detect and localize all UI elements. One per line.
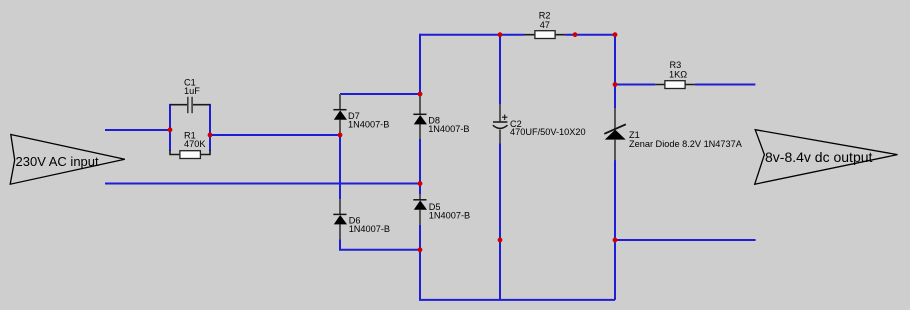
svg-text:1N4007-B: 1N4007-B [428, 124, 469, 134]
wire C2 branch top [499, 35, 501, 105]
svg-text:470K: 470K [184, 139, 206, 149]
zener diode Z1 [604, 108, 742, 160]
diode D8 [413, 94, 469, 139]
wire bridge bottom-left corner and bottom rail [340, 239, 420, 250]
resistor R3 [655, 60, 695, 88]
wire Z1 branch upper vertical [614, 34, 616, 108]
svg-text:8v-8.4v dc output: 8v-8.4v dc output [765, 149, 873, 165]
svg-text:1N4007-B: 1N4007-B [429, 211, 470, 221]
wire AC line1 left segment [105, 129, 170, 131]
wire AC line2 (lower) [105, 183, 420, 185]
junction node C2 branch lower [498, 238, 503, 243]
resistor R2 [525, 11, 566, 39]
diode D5 [413, 194, 470, 225]
wire bridge right vertical mid [419, 139, 421, 194]
junction node bridge bottom [418, 247, 423, 252]
wire Z1 branch lower vertical [614, 160, 616, 300]
annotation arrow 230V AC input [10, 135, 125, 185]
junction node C1R1 left [168, 127, 173, 132]
junction node bridge left mid [338, 133, 343, 138]
diode D6 [333, 199, 390, 240]
wire C1R1 right vertical [209, 104, 211, 151]
wire C2 branch bottom [499, 144, 501, 300]
junction node C1R1 right [208, 133, 213, 138]
svg-text:1N4007-B: 1N4007-B [349, 224, 390, 234]
wire R3 output left segment [615, 84, 655, 86]
junction node top rail corner [613, 32, 618, 37]
svg-text:470UF/50V-10X20: 470UF/50V-10X20 [510, 127, 586, 137]
svg-text:1KΩ: 1KΩ [669, 69, 687, 79]
wire bridge top short rail [340, 93, 420, 95]
junction node R3 tap [613, 82, 618, 87]
wire dc output lower [615, 239, 756, 241]
resistor R1 [170, 131, 210, 159]
junction node top rail after R2 [573, 32, 578, 37]
junction node output lower tap [613, 238, 618, 243]
junction node bridge right top [418, 92, 423, 97]
wire top rail right of R2 [565, 34, 615, 36]
wire bridge right vertical top [419, 34, 421, 94]
wire AC line1 right segment (node to bridge) [210, 134, 340, 136]
svg-text:47: 47 [540, 20, 550, 30]
svg-text:230V AC input: 230V AC input [16, 154, 100, 169]
junction node bridge right mid [418, 181, 423, 186]
svg-text:1N4007-B: 1N4007-B [348, 120, 389, 130]
wire bridge left vertical (D7 node to D6) [339, 135, 341, 199]
wire top rail left of R2 [420, 34, 525, 36]
wire R3 output right segment [695, 84, 756, 86]
capacitor C1 [170, 78, 210, 114]
annotation arrow 8v-8.4v dc output [755, 130, 898, 185]
wire bridge right vertical bottom to ground rail [420, 225, 615, 300]
capacitor C2 [493, 104, 586, 143]
junction node top rail C2 tap [498, 32, 503, 37]
diode D7 [333, 94, 389, 135]
wire C1R1 left vertical [169, 104, 171, 151]
svg-text:1uF: 1uF [184, 86, 200, 96]
svg-text:Zenar Diode 8.2V 1N4737A: Zenar Diode 8.2V 1N4737A [629, 139, 743, 149]
